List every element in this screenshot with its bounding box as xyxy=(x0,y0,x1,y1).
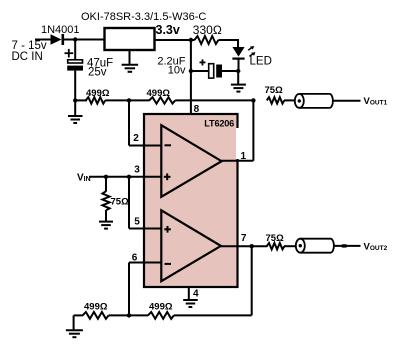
svg-text:25v: 25v xyxy=(88,67,107,79)
svg-text:2: 2 xyxy=(133,133,139,144)
svg-text:1: 1 xyxy=(241,151,247,162)
svg-text:499Ω: 499Ω xyxy=(147,88,171,99)
svg-text:6: 6 xyxy=(132,253,138,264)
svg-text:3: 3 xyxy=(134,164,140,175)
svg-text:VOUT1: VOUT1 xyxy=(364,96,388,107)
svg-text:4: 4 xyxy=(193,289,199,300)
svg-text:1N4001: 1N4001 xyxy=(41,24,80,36)
svg-text:499Ω: 499Ω xyxy=(86,88,110,99)
svg-text:75Ω: 75Ω xyxy=(266,233,285,244)
svg-text:LT6206: LT6206 xyxy=(204,119,234,129)
svg-text:7: 7 xyxy=(241,233,247,244)
svg-text:DC IN: DC IN xyxy=(12,51,43,63)
svg-text:75Ω: 75Ω xyxy=(265,85,284,96)
svg-text:5: 5 xyxy=(134,216,140,227)
svg-text:330Ω: 330Ω xyxy=(193,23,222,37)
svg-text:3.3v: 3.3v xyxy=(156,23,180,37)
svg-text:10v: 10v xyxy=(168,65,186,77)
svg-text:499Ω: 499Ω xyxy=(149,302,173,313)
svg-text:8: 8 xyxy=(194,104,200,115)
svg-text:VOUT2: VOUT2 xyxy=(364,241,388,252)
svg-text:VIN: VIN xyxy=(77,173,91,184)
svg-text:LED: LED xyxy=(250,56,272,68)
svg-text:OKI-78SR-3.3/1.5-W36-C: OKI-78SR-3.3/1.5-W36-C xyxy=(81,11,206,23)
svg-text:75Ω: 75Ω xyxy=(111,196,130,207)
svg-text:499Ω: 499Ω xyxy=(84,302,108,313)
